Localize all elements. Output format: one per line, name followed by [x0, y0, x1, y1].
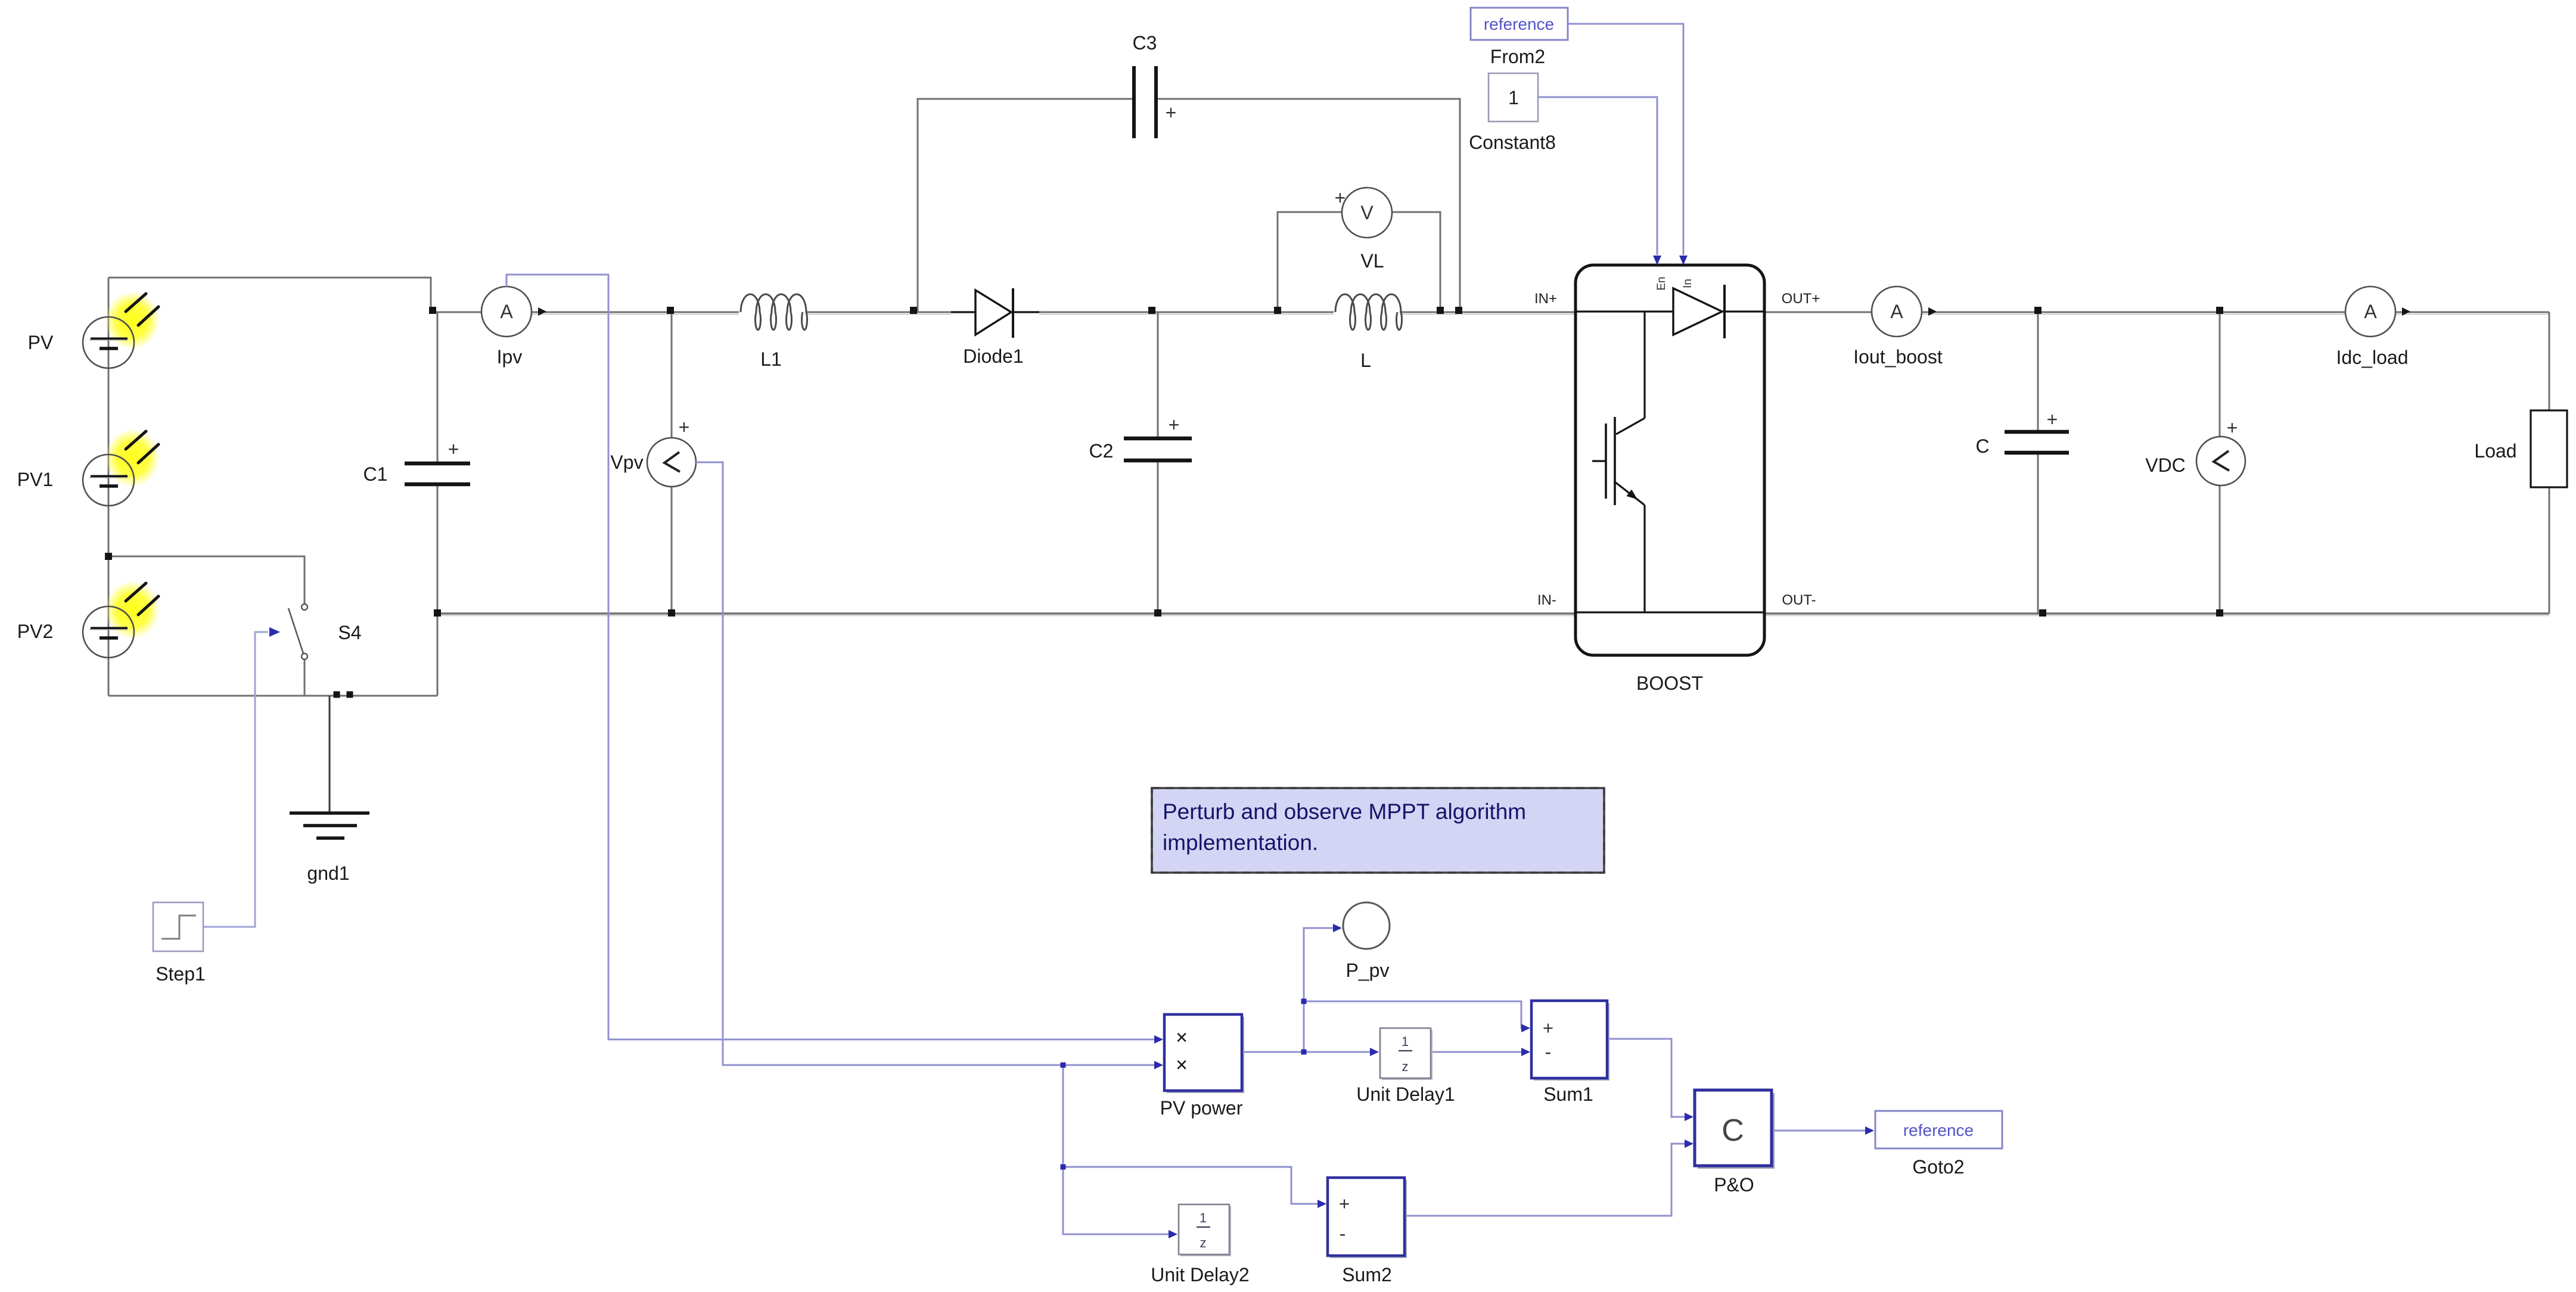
- svg-text:Goto2: Goto2: [1912, 1156, 1964, 1178]
- svg-text:×: ×: [1176, 1026, 1188, 1049]
- svg-text:reference: reference: [1484, 15, 1554, 33]
- svg-text:C: C: [1722, 1113, 1744, 1148]
- svg-text:implementation.: implementation.: [1163, 830, 1318, 855]
- svg-text:From2: From2: [1490, 46, 1545, 67]
- svg-text:+: +: [448, 438, 459, 460]
- svg-text:IN+: IN+: [1534, 291, 1557, 307]
- svg-text:OUT+: OUT+: [1782, 291, 1820, 307]
- svg-text:Iout_boost: Iout_boost: [1853, 346, 1943, 368]
- svg-text:Unit Delay2: Unit Delay2: [1151, 1264, 1249, 1285]
- svg-text:Constant8: Constant8: [1469, 132, 1556, 153]
- svg-text:Ipv: Ipv: [497, 346, 523, 368]
- svg-text:Diode1: Diode1: [963, 345, 1023, 367]
- svg-text:+: +: [1169, 414, 1180, 435]
- svg-text:C: C: [1975, 435, 1989, 457]
- svg-text:VL: VL: [1360, 250, 1384, 272]
- svg-text:Unit Delay1: Unit Delay1: [1356, 1084, 1455, 1105]
- svg-text:1: 1: [1508, 87, 1519, 108]
- svg-text:L: L: [1360, 350, 1371, 371]
- svg-text:z: z: [1200, 1235, 1207, 1250]
- svg-text:In: In: [1682, 279, 1694, 288]
- svg-text:+: +: [679, 416, 690, 438]
- svg-text:-: -: [1340, 1223, 1346, 1244]
- svg-text:+: +: [1339, 1193, 1350, 1214]
- svg-text:1: 1: [1200, 1210, 1207, 1225]
- svg-text:Load: Load: [2474, 440, 2516, 462]
- svg-text:V: V: [1360, 202, 1374, 223]
- svg-text:+: +: [1166, 102, 1177, 123]
- svg-text:En: En: [1655, 276, 1668, 290]
- svg-text:PV2: PV2: [17, 621, 53, 642]
- svg-text:A: A: [2364, 301, 2377, 322]
- svg-text:VDC: VDC: [2145, 454, 2186, 476]
- svg-text:A: A: [500, 301, 513, 322]
- svg-text:Idc_load: Idc_load: [2336, 347, 2409, 368]
- svg-text:Perturb and observe MPPT algor: Perturb and observe MPPT algorithm: [1163, 799, 1526, 824]
- svg-text:BOOST: BOOST: [1636, 673, 1703, 694]
- svg-text:Sum1: Sum1: [1543, 1084, 1593, 1105]
- svg-text:+: +: [2227, 417, 2238, 438]
- svg-text:OUT-: OUT-: [1782, 592, 1816, 608]
- svg-text:C1: C1: [363, 463, 388, 485]
- svg-text:S4: S4: [338, 622, 361, 643]
- svg-text:+: +: [2047, 409, 2058, 430]
- svg-text:Vpv: Vpv: [610, 452, 643, 473]
- svg-text:L1: L1: [760, 348, 782, 370]
- svg-text:+: +: [1335, 187, 1346, 208]
- svg-text:1: 1: [1402, 1034, 1409, 1049]
- svg-text:PV power: PV power: [1160, 1097, 1243, 1119]
- svg-text:Step1: Step1: [156, 963, 206, 985]
- svg-text:z: z: [1402, 1059, 1409, 1074]
- svg-text:A: A: [1890, 301, 1903, 322]
- svg-text:×: ×: [1176, 1054, 1188, 1076]
- svg-text:-: -: [1545, 1041, 1552, 1063]
- svg-text:reference: reference: [1903, 1121, 1974, 1140]
- svg-text:Sum2: Sum2: [1342, 1264, 1392, 1285]
- svg-text:P_pv: P_pv: [1346, 960, 1390, 981]
- svg-text:+: +: [1543, 1017, 1553, 1038]
- svg-text:C3: C3: [1133, 32, 1157, 54]
- svg-text:IN-: IN-: [1537, 592, 1556, 608]
- svg-text:gnd1: gnd1: [307, 863, 349, 884]
- svg-text:C2: C2: [1089, 440, 1114, 462]
- svg-text:PV: PV: [28, 332, 54, 353]
- svg-text:PV1: PV1: [17, 469, 53, 490]
- svg-text:P&O: P&O: [1714, 1174, 1754, 1196]
